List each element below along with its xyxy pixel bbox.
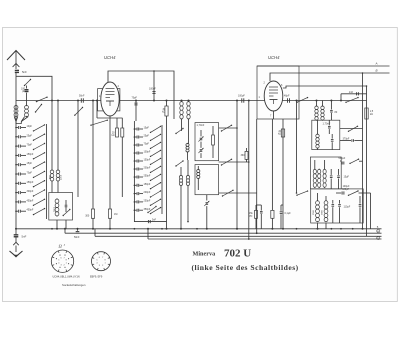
svg-text:70pF: 70pF — [27, 172, 33, 175]
IF stage2 box — [312, 120, 340, 149]
svg-text:3800: 3800 — [54, 206, 56, 212]
wire tube U2 pin6 to right — [283, 86, 367, 88]
svg-text:150pF: 150pF — [27, 153, 34, 156]
svg-text:1nF: 1nF — [349, 91, 354, 94]
capacitor 70pF mid ladder row 3 — [134, 144, 136, 146]
switch S2 below main bus — [36, 105, 42, 113]
oscillator coil box — [49, 193, 73, 221]
antenna coil L2 — [25, 105, 29, 109]
svg-text:UCH4: UCH4 — [104, 55, 116, 60]
svg-text:PO: PO — [249, 216, 253, 218]
wire y128.5 IF2 right with switch — [340, 128, 363, 130]
svg-text:200pF: 200pF — [144, 167, 151, 170]
bus wire 1 — [16, 228, 382, 230]
svg-text:25pF: 25pF — [27, 134, 33, 137]
svg-text:50nF: 50nF — [79, 95, 85, 98]
middle ladder bus wire — [133, 121, 135, 219]
wire antenna down — [15, 73, 17, 124]
svg-text:450pF: 450pF — [27, 209, 34, 212]
capacitor 200pF mid ladder row 9 — [134, 193, 136, 195]
switch IF3 — [350, 159, 359, 163]
svg-text:70pF: 70pF — [132, 97, 138, 100]
svg-text:150pF: 150pF — [144, 159, 151, 162]
wire T3 to bus — [180, 186, 182, 229]
coil funnel joins — [14, 117, 16, 122]
capacitor 150pF ladder row 4 — [15, 155, 17, 157]
resistor 1M below tube U1 — [108, 209, 111, 218]
switch ladder row 5 — [34, 162, 45, 168]
svg-text:370pF: 370pF — [343, 137, 350, 140]
wire vertical x52 — [51, 101, 53, 171]
switch mid ladder row 9 — [151, 191, 161, 197]
svg-text:Sockelschaltungen: Sockelschaltungen — [62, 283, 86, 287]
capacitor 70pF ladder row 6 — [15, 173, 17, 175]
switch mid ladder row 5 — [151, 158, 161, 164]
capacitor 100pF mid ladder row 4 — [134, 152, 136, 154]
tube U2 UCH4 envelope — [264, 81, 283, 111]
osc transformer T1b — [187, 102, 190, 106]
IF4 capacitor 1 — [332, 200, 334, 204]
svg-text:EBF9, EF9: EBF9, EF9 — [90, 276, 103, 279]
tube U2 shield box — [257, 66, 299, 119]
wire box to bus — [56, 220, 58, 229]
svg-text:5nF: 5nF — [22, 235, 27, 239]
coil T2 small — [186, 143, 189, 146]
IF1 coil a — [315, 106, 318, 110]
resistor 15k PO — [271, 210, 274, 218]
capacitor 250pF mid ladder row 7 — [134, 176, 136, 178]
svg-text:702 U: 702 U — [224, 248, 251, 260]
tube U1 shield box — [98, 89, 120, 111]
svg-text:40pF: 40pF — [284, 95, 290, 98]
capacitor 300pF ladder row 8 — [15, 192, 17, 194]
capacitor 70pF ladder row 3 — [15, 145, 17, 147]
IF3 coil a — [313, 169, 316, 174]
wire T1 bottoms — [181, 119, 183, 131]
switch S1 on main bus — [37, 97, 48, 101]
svg-text:100nF: 100nF — [149, 88, 156, 91]
capacitor 200pF mid ladder row 6 — [134, 168, 136, 170]
wire vertical x283 below box — [282, 119, 284, 229]
capacitor 50nF at bus — [77, 229, 79, 231]
wire vertical x237 — [236, 101, 238, 229]
wire y205 bottom — [256, 204, 261, 206]
svg-text:15µF: 15µF — [344, 176, 350, 179]
svg-text:kΩ: kΩ — [112, 135, 115, 137]
capacitor 150pF mid ladder row 8 — [134, 185, 136, 187]
coil 2300 — [56, 170, 60, 174]
svg-text:25pF: 25pF — [144, 135, 150, 138]
switch osc a — [176, 129, 183, 134]
switch mid ladder row 7 — [151, 174, 161, 180]
capacitor 350pF mid ladder row 11 — [134, 209, 136, 211]
svg-text:UCH4,UBL1,UM4,UY1N: UCH4,UBL1,UM4,UY1N — [53, 276, 80, 279]
IF3 capacitor 1 — [330, 169, 332, 175]
wire vertical x248.8 — [248, 101, 250, 240]
IF4 coil a — [316, 201, 320, 205]
svg-text:15pF: 15pF — [27, 162, 33, 165]
switch main right of U2 — [297, 98, 308, 103]
junction dots bus — [51, 228, 53, 230]
bus wire 2 — [65, 232, 382, 234]
svg-text:kΩ: kΩ — [162, 112, 165, 114]
wire y128 with switch — [219, 127, 237, 129]
capacitor 100pF (antenna branch) — [26, 86, 28, 89]
capacitor 150pF mid ladder row 5 — [134, 160, 136, 162]
switch osc b — [176, 161, 183, 166]
padder box 1 — [195, 123, 219, 161]
capacitor 40pF series main — [287, 98, 289, 102]
wire y162 with switch — [219, 161, 249, 163]
earth plug chevron — [15, 237, 17, 242]
coil in box2 — [197, 170, 200, 173]
page border frame — [3, 28, 398, 302]
capacitor 370pF — [340, 140, 351, 142]
svg-text:350pF: 350pF — [144, 208, 151, 211]
switch ladder row 3 — [34, 144, 45, 150]
svg-text:5nF: 5nF — [152, 219, 157, 222]
switch trimmer lever — [148, 207, 156, 213]
resistor 40k — [116, 128, 119, 137]
svg-text:250pF: 250pF — [144, 200, 151, 203]
switch lever long diagonal — [91, 120, 107, 125]
svg-text:10pF: 10pF — [27, 125, 33, 128]
ladder right bus wire — [46, 124, 48, 219]
switch main IF1 — [346, 98, 358, 103]
svg-text:Minerva: Minerva — [193, 250, 216, 257]
IF4 coil b — [324, 201, 328, 205]
series capacitor 50nF on main bus — [80, 98, 82, 102]
resistor 15k bottom — [255, 210, 258, 218]
capacitor 70pF grid — [135, 101, 137, 122]
switch mid ladder row 6 — [151, 166, 161, 172]
switch on x78 — [75, 108, 83, 116]
mid ladder right bus — [161, 125, 163, 214]
wire vertical x362.5 — [362, 73, 364, 229]
switch mid ladder row 10 — [151, 199, 161, 205]
bus wire 4 — [148, 238, 382, 240]
IF3 coil c — [323, 169, 326, 174]
tube U2 grid electrodes — [269, 86, 278, 88]
wire main grid bus — [16, 100, 367, 102]
switch IF4 — [349, 191, 359, 195]
capacitor 150pF ladder row 7 — [15, 183, 17, 185]
wire x166 to bus — [166, 116, 168, 229]
capacitor 5nF earth — [15, 229, 17, 235]
resistor 20k U2 — [281, 129, 284, 137]
svg-text:kΩ: kΩ — [278, 133, 281, 135]
tube U1 cathode wire down — [109, 116, 111, 209]
osc transformer T3b — [186, 176, 189, 179]
osc transformer T3a — [179, 176, 182, 179]
svg-text:1M: 1M — [114, 213, 117, 216]
resistor 360 — [245, 151, 248, 159]
capacitor 100/25 bottom — [260, 205, 262, 211]
svg-text:70pF: 70pF — [144, 143, 150, 146]
switch ladder row 8 — [34, 190, 45, 196]
svg-text:450pF: 450pF — [27, 199, 34, 202]
wire vertical x370 right — [370, 193, 372, 229]
svg-text:110µF: 110µF — [344, 205, 351, 208]
svg-text:300pF: 300pF — [27, 190, 34, 193]
tube socket 1 circle — [51, 250, 73, 272]
trimmer capacitor box1 upper — [200, 137, 203, 139]
capacitor 10pF ladder row 1 — [15, 127, 17, 129]
ground arrow — [10, 251, 23, 257]
svg-text:200pF: 200pF — [144, 191, 151, 194]
capacitor 1nF top right — [341, 93, 367, 95]
wire vertical x366.5 — [366, 86, 368, 236]
resistor in box1 — [212, 135, 215, 145]
switch mid ladder row 4 — [151, 150, 161, 156]
wire vertical x58 — [57, 101, 59, 171]
trimmer capacitor below box2 — [206, 195, 208, 201]
wire vertical x296.5 — [296, 101, 298, 194]
svg-text:3800: 3800 — [321, 209, 323, 215]
capacitor 100pF series main — [241, 98, 243, 102]
svg-text:100pF: 100pF — [342, 188, 349, 191]
tube U1 UCH4 envelope — [101, 82, 119, 116]
switch ladder row 4 — [34, 153, 45, 159]
tube U1 grid electrodes — [106, 88, 115, 90]
svg-text:0,1µF: 0,1µF — [285, 212, 292, 215]
IF stage3 box — [310, 157, 341, 189]
wire line A — [257, 65, 390, 67]
svg-text:300: 300 — [85, 215, 90, 218]
wire vertical x256.7 below box — [256, 119, 258, 233]
wire tube U2 cathode — [273, 111, 275, 119]
IF3 capacitor 2 — [338, 169, 340, 175]
switch mid ladder row 11 — [151, 208, 161, 214]
capacitor 5nF (antenna) — [15, 69, 19, 71]
IF4 capacitor 3 — [359, 196, 361, 204]
wire vertical x97 — [96, 101, 98, 119]
svg-text:B: B — [376, 69, 378, 73]
svg-text:5nF: 5nF — [22, 70, 27, 74]
switch ladder row 10 — [34, 209, 45, 215]
resistor 30k — [166, 101, 168, 107]
svg-text:560µF: 560µF — [338, 157, 345, 160]
IF1 tuning capacitor — [330, 101, 332, 110]
wire IF4 box to bus — [317, 223, 319, 229]
capacitor 15pF ladder row 5 — [15, 164, 17, 166]
wire horizontal y118 — [97, 117, 123, 119]
resistor 30 right edge — [365, 108, 368, 119]
switch mid ladder row 3 — [151, 142, 161, 148]
switch ladder row 6 — [34, 171, 45, 177]
capacitor 15pF mid ladder row 1 — [134, 128, 136, 130]
bus wire 3 — [95, 235, 382, 237]
svg-text:70pF: 70pF — [27, 144, 33, 147]
svg-text:50nF: 50nF — [74, 236, 80, 239]
svg-text:(linke Seite des Schaltbildes): (linke Seite des Schaltbildes) — [192, 263, 299, 272]
coil 560 — [50, 170, 54, 174]
capacitor 25pF ladder row 2 — [15, 136, 17, 138]
capacitor 0.1uF bottom — [280, 205, 282, 211]
IF1 coil b — [321, 106, 324, 110]
padder box 2 — [195, 165, 219, 195]
tube U1 anode wire loop — [108, 71, 174, 119]
svg-text:250pF: 250pF — [144, 175, 151, 178]
capacitor 450pF ladder row 9 — [15, 201, 17, 203]
wire vertical x272.4 below box — [271, 119, 273, 210]
switch left IF4 — [297, 191, 308, 195]
trimmer in box — [65, 204, 68, 206]
IF2 coil — [316, 134, 319, 138]
svg-text:A: A — [375, 62, 378, 66]
left ladder bus wire — [15, 121, 17, 229]
svg-text:100pF: 100pF — [144, 151, 151, 154]
svg-text:2500: 2500 — [313, 209, 315, 215]
capacitor 250pF mid ladder row 10 — [134, 201, 136, 203]
wire y193 with switch — [219, 192, 257, 194]
capacitor 25pF mid ladder row 2 — [134, 136, 136, 138]
switch antenna branch — [25, 80, 31, 86]
capacitor 5nF mid ladder bottom — [134, 219, 166, 222]
switch ladder row 7 — [34, 181, 45, 187]
wire vertical x78 with switch — [77, 101, 79, 198]
tube socket 2 circle — [92, 252, 111, 271]
antenna — [7, 51, 25, 61]
capacitor 100nF osc — [153, 71, 155, 101]
switch mid ladder row 1 — [151, 126, 161, 132]
switch in box — [63, 210, 70, 216]
coil 3800 in box — [55, 199, 59, 203]
switch mid ladder row 8 — [151, 183, 161, 189]
svg-text:150pF: 150pF — [144, 183, 151, 186]
osc transformer T1a — [180, 102, 183, 106]
wire antenna top loop to oscillator — [16, 76, 52, 100]
resistor 20k — [121, 128, 124, 137]
switch ladder row 1 — [34, 125, 45, 131]
antenna coil L1 — [14, 105, 18, 109]
switch mid ladder row 2 — [151, 134, 161, 140]
svg-text:1,70nF: 1,70nF — [197, 124, 205, 127]
IF4 capacitor 2 — [339, 200, 341, 204]
IF stage4 box — [311, 189, 364, 223]
resistor 300 ohm — [91, 209, 94, 218]
svg-text:kΩ: kΩ — [370, 114, 373, 116]
trimmer capacitor box1 lower — [200, 149, 203, 151]
svg-text:2300: 2300 — [61, 174, 63, 180]
switch ladder row 9 — [34, 199, 45, 205]
svg-text:15pF: 15pF — [144, 127, 150, 130]
switch ladder row 2 — [34, 134, 45, 140]
wire line B — [270, 73, 390, 81]
capacitor 450pF ladder row 10 — [15, 210, 17, 212]
svg-text:150pF: 150pF — [27, 181, 34, 184]
svg-text:UCH4: UCH4 — [268, 55, 280, 60]
IF3 coil b — [318, 169, 321, 174]
IF2 capacitor — [331, 134, 333, 139]
wire vertical x93 — [92, 101, 94, 210]
svg-text:100pF: 100pF — [238, 95, 245, 98]
